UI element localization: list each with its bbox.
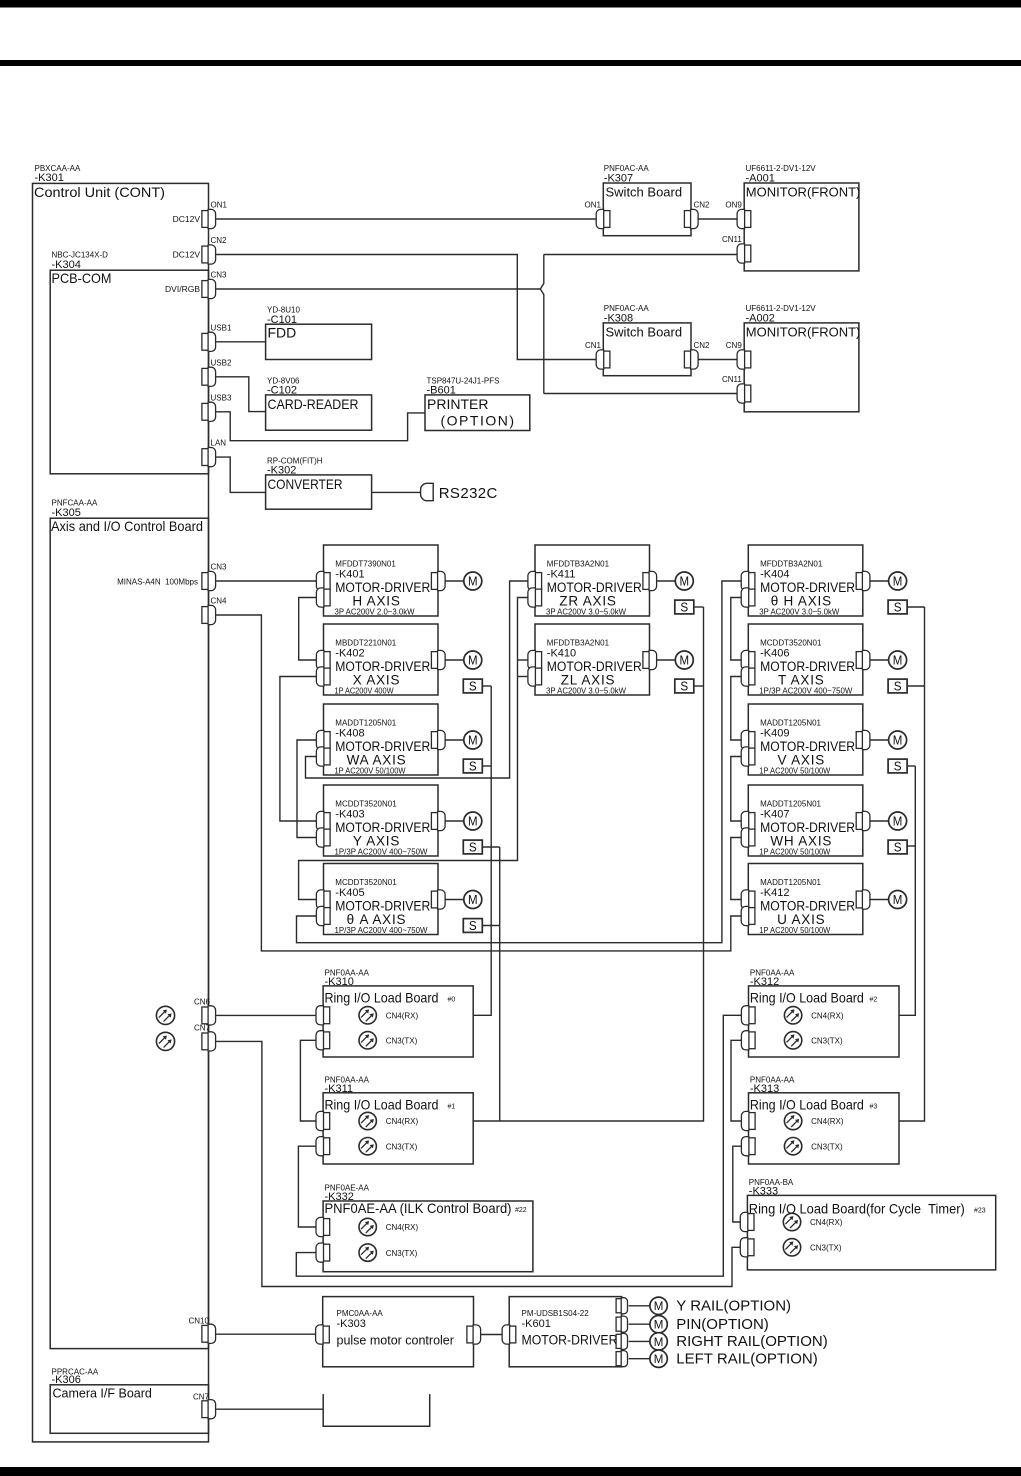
connector K601 input — [502, 1325, 516, 1344]
symbol CN4(RX) port (K332) — [359, 1218, 376, 1235]
svg-text:MFDDT7390N01: MFDDT7390N01 — [335, 560, 396, 569]
svg-text:1P AC200V 50/100W: 1P AC200V 50/100W — [335, 767, 406, 776]
svg-text:Ring I/O Load Board: Ring I/O Load Board — [750, 990, 864, 1006]
wire K412 to motor — [870, 899, 889, 901]
svg-text:MADDT1205N01: MADDT1205N01 — [760, 719, 821, 728]
wire USB2 to CARD-READER — [216, 377, 266, 412]
connector CN2 of K308 — [684, 350, 698, 369]
wire CN7 to camera peripheral — [216, 1408, 323, 1410]
connector USB1 on K301/K304 edge — [202, 332, 216, 351]
svg-text:PM-UDSB1S04-22: PM-UDSB1S04-22 — [522, 1309, 590, 1318]
connector CN2 of K307 — [684, 209, 698, 228]
wire USB1 to FDD — [216, 341, 266, 343]
svg-text:DC12V: DC12V — [173, 250, 201, 260]
connector K408 motor output — [431, 730, 445, 749]
svg-text:MINAS-A4N 100Mbps: MINAS-A4N 100Mbps — [117, 578, 198, 587]
wire CN3 to K401 — [216, 580, 316, 582]
motor M (K406) — [889, 651, 907, 669]
svg-text:S: S — [894, 760, 902, 774]
wire DVI to A001 CN11 — [544, 254, 738, 256]
connector CN4(RX) of K313 — [741, 1111, 755, 1130]
wire K601 to M RIGHT RAIL(OPTION) — [629, 1340, 650, 1342]
symbol CN4(RX) port (K313) — [784, 1112, 801, 1129]
connector K402 motor output — [431, 650, 445, 669]
svg-text:CN3: CN3 — [211, 563, 228, 572]
svg-text:-K311: -K311 — [325, 1083, 354, 1095]
svg-text:1P AC200V 50/100W: 1P AC200V 50/100W — [759, 848, 830, 857]
sensor S (K403) — [463, 840, 482, 855]
svg-text:-K303: -K303 — [337, 1318, 366, 1330]
svg-text:PRINTER: PRINTER — [427, 396, 488, 412]
motor M (K410) — [675, 651, 693, 669]
motor M RIGHT RAIL(OPTION) — [650, 1333, 667, 1350]
svg-text:3P AC200V 3.0~5.0kW: 3P AC200V 3.0~5.0kW — [759, 608, 839, 617]
wire CN4 to K412 — [216, 615, 741, 951]
svg-text:RS232C: RS232C — [439, 485, 498, 502]
svg-text:-K405: -K405 — [335, 887, 364, 899]
svg-text:X AXIS: X AXIS — [353, 673, 401, 688]
box K302 CONVERTER — [266, 475, 372, 509]
connector K402 lower-left — [316, 667, 330, 686]
wire K410 S stub — [694, 685, 703, 687]
connector K408 upper-left — [316, 730, 330, 749]
svg-text:ZR AXIS: ZR AXIS — [559, 594, 616, 609]
board K308 Switch Board — [603, 323, 691, 376]
svg-text:CN6: CN6 — [194, 998, 211, 1007]
svg-text:RIGHT RAIL(OPTION): RIGHT RAIL(OPTION) — [676, 1333, 827, 1350]
svg-text:1P/3P AC200V 400~750W: 1P/3P AC200V 400~750W — [759, 687, 852, 696]
connector CN3(TX) of K333 — [740, 1238, 754, 1257]
wire CN3 DVI/RGB — [216, 288, 540, 290]
connector K407 lower-left — [741, 828, 755, 847]
connector K410 lower-left — [528, 667, 542, 686]
motor M (K409) — [889, 731, 907, 749]
connector USB3 on K301/K304 edge — [202, 402, 216, 421]
board K313 Ring I/O Load Board #3 — [749, 1093, 900, 1164]
symbol CN3(TX) port (K313) — [784, 1138, 801, 1155]
svg-text:S: S — [469, 760, 477, 774]
svg-text:MCDDT3520N01: MCDDT3520N01 — [335, 800, 397, 809]
sensor S (K405) — [463, 919, 482, 934]
wire K401 to K402 — [299, 598, 317, 661]
svg-text:#2: #2 — [870, 997, 878, 1004]
wire K405 to K404 — [297, 581, 742, 943]
svg-text:S: S — [680, 680, 688, 694]
svg-text:CN11: CN11 — [722, 235, 742, 244]
svg-text:-K307: -K307 — [604, 173, 633, 185]
svg-text:CN4(RX): CN4(RX) — [811, 1117, 844, 1126]
svg-text:M: M — [468, 653, 478, 667]
sensor S (K407) — [888, 840, 907, 855]
sensor S (K406) — [888, 679, 907, 694]
svg-text:-K404: -K404 — [760, 569, 789, 581]
connector K405 lower-left — [316, 906, 330, 925]
connector K409 lower-left — [741, 747, 755, 766]
wire K401 to motor — [445, 580, 464, 582]
svg-text:Y AXIS: Y AXIS — [353, 834, 400, 849]
svg-text:MOTOR-DRIVER: MOTOR-DRIVER — [522, 1333, 618, 1348]
connector CN2 on K301/K304 edge — [202, 245, 216, 264]
connector K408 lower-left — [316, 747, 330, 766]
symbol CN4(RX) port (K311) — [359, 1112, 376, 1129]
wire S bus to K313 — [899, 607, 925, 1121]
svg-text:#1: #1 — [448, 1103, 456, 1110]
connector K407 upper-left — [741, 811, 755, 830]
svg-text:-K308: -K308 — [604, 312, 633, 324]
motor M (K401) — [464, 572, 482, 590]
connector RS232C plug — [421, 483, 434, 500]
wire K310 TX to K311 RX — [300, 1040, 316, 1121]
svg-text:-C102: -C102 — [267, 385, 297, 397]
connector CN3(TX) of K312 — [741, 1031, 755, 1050]
connector ON1 of K307 — [596, 209, 610, 228]
connector K409 motor output — [856, 730, 870, 749]
svg-text:S: S — [680, 601, 688, 615]
wire K406 to motor — [870, 659, 889, 661]
sensor S (K410) — [675, 679, 694, 694]
svg-text:M: M — [680, 574, 690, 588]
svg-text:PNF0AE-AA (ILK Control Board): PNF0AE-AA (ILK Control Board) — [325, 1200, 512, 1216]
connector CN7 on K306 edge — [202, 1400, 216, 1419]
wire K407 to motor — [870, 820, 889, 822]
svg-text:M: M — [893, 733, 903, 747]
connector K411 lower-left — [528, 588, 542, 607]
svg-text:3P AC200V 2.0~3.0kW: 3P AC200V 2.0~3.0kW — [335, 608, 415, 617]
svg-text:M: M — [893, 574, 903, 588]
svg-text:CN11: CN11 — [722, 375, 742, 384]
svg-text:S: S — [469, 841, 477, 855]
motor M (K404) — [889, 572, 907, 590]
motor M (K411) — [675, 572, 693, 590]
wire CN10 to K303 — [216, 1333, 316, 1335]
svg-text:-K313: -K313 — [750, 1083, 779, 1095]
svg-text:CN3(TX): CN3(TX) — [811, 1037, 843, 1046]
connector CN3(TX) of K310 — [316, 1031, 330, 1050]
svg-text:CN4(RX): CN4(RX) — [386, 1223, 419, 1232]
wire K411 to K405 — [299, 598, 528, 900]
wire K403 to K408 — [297, 740, 317, 838]
wire K311 TX to K332 RX — [298, 1146, 316, 1227]
wire K404 S stub — [907, 606, 925, 608]
connector CN11 of A002 — [737, 384, 751, 403]
svg-text:3P AC200V 3.0~5.0kW: 3P AC200V 3.0~5.0kW — [546, 687, 626, 696]
board A002 MONITOR(FRONT) — [744, 323, 859, 412]
symbol CN6 ring port — [156, 1006, 174, 1024]
connector K403 motor output — [431, 811, 445, 830]
connector ON9 of A001 — [737, 209, 751, 228]
svg-text:ON1: ON1 — [585, 201, 602, 210]
board K332 ILK Control Board #22 — [323, 1201, 533, 1272]
connector K601 LEFT RAIL(OPTION) output — [616, 1351, 627, 1367]
wire S bus to K312 — [899, 766, 915, 1015]
svg-text:H AXIS: H AXIS — [352, 594, 400, 609]
connector K403 upper-left — [316, 811, 330, 830]
board K312 Ring I/O Load Board #2 — [749, 986, 900, 1057]
wire LAN to CONVERTER — [216, 457, 266, 492]
wire K408 to K411 — [306, 581, 529, 778]
motor M (K408) — [464, 731, 482, 749]
svg-text:#3: #3 — [870, 1103, 878, 1110]
svg-text:-K401: -K401 — [335, 569, 364, 581]
svg-text:S: S — [469, 680, 477, 694]
box camera peripheral (open top) — [323, 1394, 430, 1426]
wire USB3 to PRINTER — [216, 412, 425, 441]
connector CN3(TX) of K332 — [316, 1243, 330, 1262]
svg-text:MCDDT3520N01: MCDDT3520N01 — [760, 639, 822, 648]
connector K303 output — [467, 1325, 481, 1344]
connector K407 motor output — [856, 811, 870, 830]
svg-text:M: M — [468, 574, 478, 588]
svg-text:M: M — [468, 893, 478, 907]
symbol CN3(TX) port (K312) — [784, 1032, 801, 1049]
wire K409 S stub — [907, 765, 915, 767]
motor-driver K407 WH AXIS — [748, 785, 863, 856]
wire CN2 DC12V to K308 — [216, 255, 596, 360]
symbol CN4(RX) port (K333) — [783, 1213, 800, 1230]
svg-text:LEFT RAIL(OPTION): LEFT RAIL(OPTION) — [676, 1351, 817, 1368]
connector K412 lower-left — [741, 906, 755, 925]
box K303 pulse motor controller — [323, 1297, 474, 1367]
svg-text:CN4(RX): CN4(RX) — [386, 1012, 419, 1021]
svg-text:M: M — [893, 814, 903, 828]
svg-text:PCB-COM: PCB-COM — [52, 270, 112, 286]
motor-driver K411 ZR AXIS — [535, 545, 650, 616]
wire K601 to M Y RAIL(OPTION) — [629, 1305, 650, 1307]
svg-text:MBDDT2210N01: MBDDT2210N01 — [335, 639, 396, 648]
connector CN4(RX) of K311 — [316, 1111, 330, 1130]
wire K407 S stub — [907, 845, 915, 847]
connector K412 upper-left — [741, 890, 755, 909]
svg-text:ZL AXIS: ZL AXIS — [561, 673, 616, 688]
svg-text:LAN: LAN — [211, 439, 227, 448]
motor-driver K409 V AXIS — [748, 704, 863, 775]
svg-text:CN4(RX): CN4(RX) — [386, 1117, 419, 1126]
svg-text:CONVERTER: CONVERTER — [268, 476, 343, 492]
wire DVI vertical split — [540, 255, 544, 394]
svg-text:-A001: -A001 — [746, 173, 775, 185]
svg-text:M: M — [893, 653, 903, 667]
svg-text:Camera I/F Board: Camera I/F Board — [53, 1387, 152, 1401]
wire K601 to M LEFT RAIL(OPTION) — [629, 1358, 650, 1360]
svg-text:PMC0AA-AA: PMC0AA-AA — [337, 1309, 384, 1318]
connector K409 upper-left — [741, 730, 755, 749]
wire K410 to motor — [657, 659, 676, 661]
symbol CN3(TX) port (K332) — [359, 1244, 376, 1261]
box B601 PRINTER — [425, 395, 530, 431]
svg-text:1P AC200V 50/100W: 1P AC200V 50/100W — [759, 767, 830, 776]
svg-text:MONITOR(FRONT): MONITOR(FRONT) — [746, 325, 861, 340]
wire K601 to M PIN(OPTION) — [629, 1323, 650, 1325]
wire K406 to K409 — [731, 677, 742, 741]
svg-text:-K402: -K402 — [335, 648, 364, 660]
svg-text:MFDDTB3A2N01: MFDDTB3A2N01 — [547, 639, 610, 648]
connector K411 upper-left — [528, 571, 542, 590]
symbol CN4(RX) port (K310) — [359, 1007, 376, 1024]
svg-text:CN2: CN2 — [694, 341, 711, 350]
svg-text:-K301: -K301 — [35, 172, 64, 184]
svg-text:WH AXIS: WH AXIS — [770, 834, 832, 849]
connector CN1 of K308 — [596, 350, 610, 369]
wire CONVERTER to RS232C — [372, 491, 421, 493]
svg-text:-K410: -K410 — [547, 648, 576, 660]
svg-text:M: M — [654, 1352, 664, 1366]
connector CN4(RX) of K310 — [316, 1006, 330, 1025]
svg-text:CN7: CN7 — [194, 1024, 211, 1033]
sensor S (K402) — [463, 679, 482, 694]
svg-text:MONITOR(FRONT): MONITOR(FRONT) — [746, 185, 861, 200]
connector CN4(RX) of K332 — [316, 1217, 330, 1236]
svg-text:MFDDTB3A2N01: MFDDTB3A2N01 — [547, 560, 610, 569]
motor M PIN(OPTION) — [650, 1316, 667, 1333]
svg-text:-K302: -K302 — [267, 465, 296, 477]
board K306 Camera I/F Board — [50, 1385, 208, 1434]
svg-text:Ring I/O Load Board: Ring I/O Load Board — [325, 990, 439, 1006]
motor-driver K410 ZL AXIS — [535, 624, 650, 695]
connector K401 lower-left — [316, 588, 330, 607]
svg-text:CARD-READER: CARD-READER — [268, 396, 359, 412]
svg-text:MCDDT3520N01: MCDDT3520N01 — [335, 878, 397, 887]
svg-text:CN1: CN1 — [585, 341, 602, 350]
motor M LEFT RAIL(OPTION) — [650, 1350, 667, 1367]
svg-text:Axis and I/O Control Board: Axis and I/O Control Board — [51, 518, 203, 534]
wire K313 TX to K333 RX — [733, 1146, 742, 1222]
svg-text:1P/3P AC200V 400~750W: 1P/3P AC200V 400~750W — [335, 848, 428, 857]
motor M (K405) — [464, 891, 482, 909]
wire K406 S stub — [907, 685, 925, 687]
connector K411 motor output — [643, 571, 657, 590]
wire K407 to K412 — [731, 838, 742, 900]
svg-text:-K403: -K403 — [335, 809, 364, 821]
svg-text:CN3(TX): CN3(TX) — [386, 1142, 418, 1151]
svg-text:M: M — [468, 733, 478, 747]
wire K409 to K407 — [731, 757, 742, 822]
motor M Y RAIL(OPTION) — [650, 1297, 667, 1314]
svg-text:M: M — [654, 1318, 664, 1332]
connector ON1 on K301/K304 edge — [202, 209, 216, 228]
svg-text:USB2: USB2 — [211, 358, 232, 367]
wire K402 to K403 — [280, 677, 317, 822]
connector K410 upper-left — [528, 650, 542, 669]
motor-driver K412 U AXIS — [748, 864, 863, 935]
motor M (K403) — [464, 812, 482, 830]
connector CN10 on K305 edge — [202, 1324, 216, 1343]
wire K405 to motor — [445, 899, 464, 901]
svg-text:CN4: CN4 — [211, 597, 228, 606]
board K307 Switch Board — [603, 183, 691, 236]
wire K408 to motor — [445, 739, 464, 741]
connector K401 upper-left — [316, 571, 330, 590]
motor-driver K403 Y AXIS — [324, 785, 439, 856]
svg-text:1P AC200V 50/100W: 1P AC200V 50/100W — [759, 926, 830, 935]
svg-text:M: M — [654, 1335, 664, 1349]
motor-driver K408 WA AXIS — [324, 704, 439, 775]
board K305 Axis and I/O Control Board — [50, 518, 208, 1348]
svg-text:S: S — [894, 680, 902, 694]
svg-text:S: S — [469, 919, 477, 933]
svg-text:-K411: -K411 — [547, 569, 576, 581]
board K333 Ring I/O Load Board (for Cycle Timer) #23 — [747, 1195, 995, 1270]
svg-text:S: S — [894, 841, 902, 855]
motor-driver K404 θ H AXIS — [748, 545, 863, 616]
wire K403 to motor — [445, 820, 464, 822]
connector CN9 of A002 — [737, 350, 751, 369]
connector K601 RIGHT RAIL(OPTION) output — [616, 1333, 627, 1349]
motor M (K402) — [464, 651, 482, 669]
svg-text:Switch Board: Switch Board — [606, 185, 683, 200]
wire K312 TX to K313 RX — [731, 1040, 742, 1121]
svg-text:CN3(TX): CN3(TX) — [386, 1249, 418, 1258]
symbol CN3(TX) port (K311) — [359, 1138, 376, 1155]
svg-text:DC12V: DC12V — [173, 214, 201, 224]
svg-text:CN3(TX): CN3(TX) — [386, 1037, 418, 1046]
svg-text:MADDT1205N01: MADDT1205N01 — [760, 878, 821, 887]
connector CN3(TX) of K311 — [316, 1137, 330, 1156]
svg-text:CN2: CN2 — [694, 201, 711, 210]
svg-text:Control Unit (CONT): Control Unit (CONT) — [34, 184, 165, 200]
symbol CN3(TX) port (K310) — [359, 1032, 376, 1049]
svg-text:MADDT1205N01: MADDT1205N01 — [760, 800, 821, 809]
svg-text:-A002: -A002 — [746, 312, 775, 324]
svg-text:M: M — [893, 893, 903, 907]
connector CN4 on K305 edge — [202, 605, 216, 624]
wire K405 S stub — [482, 925, 499, 927]
wire K404 to motor — [870, 580, 889, 582]
connector K303 input — [316, 1325, 330, 1344]
svg-text:Ring I/O Load Board: Ring I/O Load Board — [325, 1096, 439, 1112]
svg-text:-K601: -K601 — [522, 1318, 551, 1330]
connector CN4(RX) of K333 — [740, 1212, 754, 1231]
svg-text:#0: #0 — [448, 997, 456, 1004]
wire K404 to K406 — [731, 598, 742, 661]
svg-text:-K406: -K406 — [760, 648, 789, 660]
connector K406 lower-left — [741, 667, 755, 686]
wire K402 S stub — [482, 685, 491, 687]
svg-text:V AXIS: V AXIS — [778, 753, 826, 768]
svg-text:1P AC200V 400W: 1P AC200V 400W — [335, 687, 394, 696]
connector K401 motor output — [431, 571, 445, 590]
wire K411 to motor — [657, 580, 676, 582]
wire S bus K403/K405 — [499, 847, 501, 1121]
svg-text:U AXIS: U AXIS — [777, 912, 825, 927]
wire K410 upper stub — [518, 659, 529, 661]
motor M (K412) — [889, 891, 907, 909]
box C102 CARD-READER — [266, 395, 372, 430]
svg-text:M: M — [654, 1299, 664, 1313]
svg-text:CN3(TX): CN3(TX) — [811, 1142, 843, 1151]
wire ON1 DC12V to K307 — [216, 218, 596, 220]
connector K405 upper-left — [316, 890, 330, 909]
svg-text:-K408: -K408 — [335, 728, 364, 740]
connector K404 upper-left — [741, 571, 755, 590]
connector CN3 on K305 edge — [202, 571, 216, 590]
svg-text:#23: #23 — [974, 1207, 986, 1214]
svg-text:Y RAIL(OPTION): Y RAIL(OPTION) — [676, 1298, 791, 1315]
svg-text:USB1: USB1 — [211, 323, 232, 332]
symbol CN4(RX) port (K312) — [784, 1007, 801, 1024]
svg-text:ON1: ON1 — [211, 201, 228, 210]
connector K402 upper-left — [316, 650, 330, 669]
svg-text:#22: #22 — [515, 1207, 527, 1214]
motor-driver K402 X AXIS — [324, 624, 439, 695]
svg-text:CN2: CN2 — [211, 236, 228, 245]
motor M (K407) — [889, 812, 907, 830]
connector K406 upper-left — [741, 650, 755, 669]
svg-text:pulse motor controler: pulse motor controler — [337, 1334, 454, 1348]
connector CN3 on K301/K304 edge — [202, 279, 216, 298]
svg-text:ON9: ON9 — [725, 201, 742, 210]
board K301 Control Unit (CONT) — [33, 183, 209, 1442]
motor-driver K406 T AXIS — [748, 624, 863, 695]
